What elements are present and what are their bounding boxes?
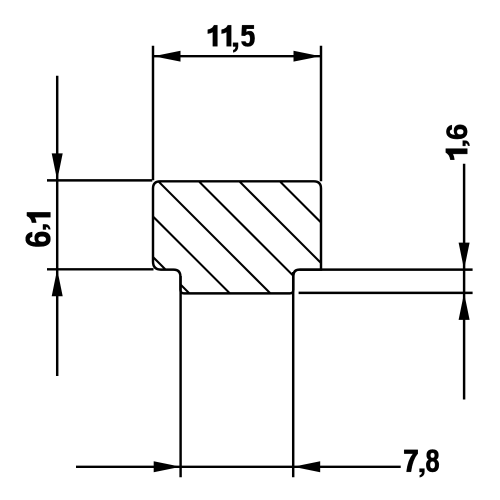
dimension 6,1 : value label (rotated): [26, 212, 51, 246]
dimension 6,1 : dimension line: [56, 76, 58, 376]
dimension 6,1 : lower arrowhead pointing up: [52, 269, 63, 296]
hatch line 4: [152, 134, 342, 324]
dimension 6,1 : top extension line: [47, 179, 152, 181]
hatching of profile section: [30, 134, 461, 324]
dimension 7,8 : left arrowhead pointing right: [154, 461, 181, 472]
dimension 1,6 : value label (rotated): [446, 125, 470, 160]
dimension 11,5 : right extension line: [320, 46, 322, 182]
dimension 11,5 : right arrowhead: [294, 51, 321, 62]
dimension 11,5 : value label: [208, 25, 255, 52]
dimension 6,1 : upper arrowhead pointing down: [52, 153, 63, 180]
hatch line 2: [71, 134, 261, 324]
hatch line 7: [271, 134, 461, 324]
hatch line 3: [111, 134, 301, 324]
dimension 1,6 : lower arrowhead pointing up: [459, 293, 470, 320]
hatch line 5: [192, 134, 382, 324]
dimension 6,1 : bottom extension line: [47, 268, 154, 270]
hatch line 1: [30, 134, 220, 324]
dimension 7,8 : dimension line: [76, 466, 401, 468]
dimension 7,8 : left extension line: [179, 276, 181, 477]
dimension 1,6 : dimension line: [463, 164, 465, 400]
dimension 1,6 : upper arrowhead pointing down: [459, 243, 470, 270]
dimension 11,5 : dimension line: [154, 55, 321, 57]
panel flange top edge: [300, 268, 473, 270]
profile body outline: [153, 181, 321, 293]
hatch line 6: [233, 134, 423, 324]
dimension 11,5 : left arrowhead: [154, 51, 181, 62]
dimension 7,8 : value label: [404, 449, 439, 477]
dimension 11,5 : left extension line: [152, 46, 154, 181]
panel flange bottom edge: [299, 292, 473, 294]
dimension 7,8 : right extension line: [292, 272, 294, 477]
dimension 7,8 : right arrowhead pointing left: [293, 461, 320, 472]
